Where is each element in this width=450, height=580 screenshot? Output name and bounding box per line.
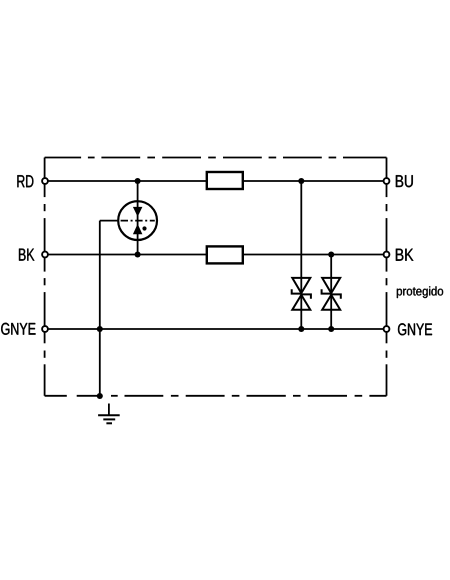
junction earth drop / GNYE <box>97 326 103 332</box>
resistor R1 <box>207 172 243 189</box>
terminal BU right <box>384 178 390 184</box>
junction diode D2 / GNYE <box>328 326 334 332</box>
wire earth drop <box>99 221 101 396</box>
terminal BK right <box>384 252 390 258</box>
terminal GNYE left <box>42 326 48 332</box>
label BK left <box>19 249 34 261</box>
gas discharge tube G1 <box>118 201 157 240</box>
junction diode D2 / BK <box>328 251 334 257</box>
label GNYE left <box>1 323 35 335</box>
terminal GNYE right <box>384 326 390 332</box>
wire BK line right segment <box>244 254 387 256</box>
label BU <box>396 175 413 187</box>
label RD <box>17 175 33 187</box>
junction diode D1 / GNYE <box>298 326 304 332</box>
wire diode D1 vertical <box>300 181 302 329</box>
enclosure border bottom (dash-dot) <box>45 395 387 397</box>
wire gas tube side tap <box>100 220 118 222</box>
label protegido <box>397 286 443 298</box>
junction earth drop / border <box>97 393 103 399</box>
suppressor diode D1 <box>292 278 311 310</box>
label BK right <box>396 249 414 261</box>
resistor R2 <box>207 246 243 263</box>
wire RD line left segment <box>45 180 206 182</box>
enclosure border right (dash-dot) <box>386 158 388 396</box>
enclosure border left (dash-dot) <box>44 158 46 396</box>
terminal BK left <box>42 252 48 258</box>
enclosure border top (dash-dot) <box>45 157 387 159</box>
wire BK line left segment <box>45 254 206 256</box>
junction diode D1 / RD <box>298 178 304 184</box>
junction gas tube / RD <box>135 178 141 184</box>
ground symbol <box>98 404 120 424</box>
junction gas tube / BK <box>135 251 141 257</box>
terminal RD left <box>42 178 48 184</box>
wire RD line right segment <box>244 180 387 182</box>
label GNYE right <box>398 323 432 335</box>
wire GNYE line <box>45 328 387 330</box>
suppressor diode D2 <box>322 278 341 310</box>
wire diode D2 vertical <box>330 255 332 330</box>
wire gas tube vertical <box>137 181 139 255</box>
